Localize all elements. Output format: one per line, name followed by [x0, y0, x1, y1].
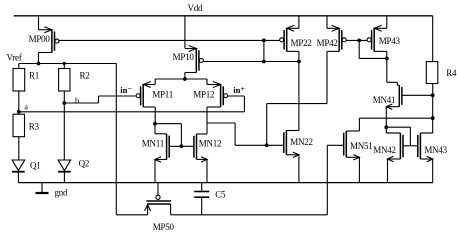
svg-text:Vdd: Vdd [188, 3, 203, 13]
svg-text:R4: R4 [446, 68, 457, 78]
node b wire (to in-) [62, 96, 135, 105]
wire MN12 drain to MN22 gate [207, 123, 284, 147]
wire MN42/MN43 gate link [403, 145, 418, 147]
transistor MP22 [280, 16, 299, 131]
wire MP42 drain to MN22-gate node [267, 51, 327, 145]
transistor MN12 [194, 134, 207, 183]
svg-text:MP12: MP12 [193, 89, 214, 99]
transistor MN11 [153, 122, 169, 183]
resistor R3 [13, 112, 25, 160]
svg-text:MP11: MP11 [152, 89, 173, 99]
wire in+ to node a [228, 96, 245, 112]
svg-text:MN41: MN41 [373, 95, 396, 105]
svg-text:MN12: MN12 [199, 139, 222, 149]
svg-text:Vref: Vref [7, 53, 22, 63]
ground symbol [36, 183, 49, 193]
svg-text:R1: R1 [29, 71, 39, 81]
capacitor C5 [194, 183, 209, 215]
transistor Q1 (diode-connected) [12, 160, 25, 183]
svg-text:MP43: MP43 [379, 36, 401, 46]
wire MN11/MN12 gate link + diode tie [155, 124, 194, 149]
svg-text:Q1: Q1 [30, 161, 41, 171]
wire MP00/MP22 gate bias [59, 39, 280, 62]
svg-text:R3: R3 [29, 122, 40, 132]
resistor R1 [13, 64, 25, 112]
svg-text:MP00: MP00 [29, 34, 51, 44]
svg-text:MN11: MN11 [142, 138, 164, 148]
wire MN51 gate to compensation rail [327, 145, 343, 215]
svg-text:MP42: MP42 [317, 38, 338, 48]
svg-text:Q2: Q2 [79, 159, 90, 169]
wire Vdd right edge down to R4 [432, 16, 434, 62]
wire MN41 source down + branch to MN42/MN43 gates [384, 107, 410, 146]
wire MP42/MP43 gate link + MP43 diode tie [346, 39, 388, 61]
transistor MN42 [386, 133, 403, 183]
transistor MP10 [185, 16, 203, 79]
wire MN41 gate to R4 bottom [402, 93, 435, 97]
transistor MP12 [207, 79, 228, 134]
wire MP10 gate to MP22 drain [203, 60, 301, 64]
svg-text:b: b [75, 95, 79, 105]
transistor MN43 [418, 133, 433, 183]
svg-text:MN22: MN22 [290, 137, 313, 147]
svg-text:MN42: MN42 [373, 145, 396, 155]
transistor MN22 [284, 131, 299, 183]
wire compensation rail (MP50 drain to MN51 gate) [171, 214, 328, 216]
svg-text:MP22: MP22 [291, 38, 312, 48]
transistor MP11 [136, 79, 155, 124]
resistor R2 [59, 62, 70, 160]
transistor MP50 [145, 183, 171, 215]
svg-text:R2: R2 [80, 71, 90, 81]
wire ground rail [18, 182, 432, 184]
transistor MN51 [344, 131, 360, 183]
wire Vref to MP50 source (long vertical) [115, 64, 117, 215]
node a wire (to in+) [17, 110, 245, 114]
transistor Q2 (diode-connected) [58, 160, 71, 183]
svg-text:MP10: MP10 [173, 52, 195, 62]
svg-text:MP50: MP50 [153, 222, 175, 232]
svg-text:gnd: gnd [55, 188, 69, 198]
svg-text:MN51: MN51 [350, 141, 373, 151]
transistor MP42 [327, 16, 346, 52]
svg-text:MN43: MN43 [424, 145, 447, 155]
resistor R4 [426, 62, 438, 133]
wire MP11/MP12 common source [155, 77, 207, 81]
transistor MP43 [367, 16, 387, 83]
wire Vdd rail [14, 15, 433, 17]
svg-text:C5: C5 [215, 190, 226, 200]
wire Vref node (MP00 drain to R1,R2 tops) [19, 62, 117, 66]
transistor MN41 [386, 82, 402, 109]
transistor MP00 [39, 16, 59, 64]
wire MN51 drain rail to R4 node [359, 116, 434, 131]
wire startup bottom rail left [116, 214, 147, 216]
